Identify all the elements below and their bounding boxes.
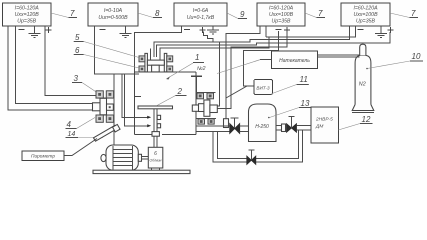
bus wire PS5 plus to plasmatron N2 wire2 (157, 32, 390, 57)
svg-text:N2: N2 (359, 82, 366, 88)
svg-text:Натекатель: Натекатель (279, 58, 310, 64)
plasmatron N1 (left) (93, 91, 114, 123)
svg-text:Uхх=100В: Uхх=100В (269, 12, 294, 18)
bus wire PS5 w2 to plasmatron N2 wire3 (160, 26, 355, 50)
svg-text:I=60-120А: I=60-120А (269, 6, 294, 12)
svg-text:12: 12 (362, 115, 371, 124)
T component on right wall (191, 76, 202, 92)
svg-text:6: 6 (154, 151, 157, 157)
PS4 terminal plus (284, 27, 290, 33)
plasmatron N2 (top) (139, 49, 173, 72)
reducer (282, 124, 286, 132)
pipe valve B to rotary pump (297, 126, 312, 130)
power supply box PS4 (257, 3, 305, 26)
callout 12 (338, 115, 372, 130)
svg-text:7: 7 (318, 9, 323, 18)
rotary pump 2NVR-5DM (311, 107, 338, 143)
PS4 terminal minus (276, 29, 282, 31)
svg-text:7: 7 (70, 9, 75, 18)
svg-text:1: 1 (195, 53, 199, 62)
wire to substrate heater arrow 2 (125, 74, 148, 126)
bypass line (213, 130, 303, 162)
PS2 ground (120, 26, 132, 38)
svg-text:№2: №2 (197, 66, 206, 72)
wire PS1 mid to plasmatron N1 neck (16, 26, 93, 104)
callout 9 (PS3) (227, 10, 247, 19)
svg-text:4: 4 (67, 120, 72, 129)
svg-text:I=60-120А: I=60-120А (353, 6, 378, 12)
svg-text:3: 3 (74, 74, 79, 83)
valve B (287, 117, 297, 133)
callout 5 (74, 33, 139, 58)
callout 7 (PS4) (305, 9, 325, 18)
PS5 ground (375, 26, 387, 38)
PS3 terminal minus (184, 29, 190, 31)
power supply box PS5 (341, 3, 390, 26)
VIT-3 wire to gauge assembly (226, 86, 254, 98)
svg-text:Uр=35В: Uр=35В (356, 19, 375, 25)
right wall gauge stub top (196, 93, 216, 99)
callout 3 (72, 74, 96, 92)
PS3 terminal plus (200, 27, 206, 33)
wire PS4 w2 drop to bus (265, 26, 267, 37)
gas cylinder N2 (352, 44, 374, 112)
chamber pump port pipe (196, 126, 230, 131)
svg-text:Н-250: Н-250 (255, 124, 269, 130)
pyrometer box (22, 139, 97, 161)
svg-text:2НВР-5: 2НВР-5 (315, 117, 333, 123)
thermo valve component on pipe (224, 119, 229, 128)
svg-text:I=0-10А: I=0-10А (104, 8, 123, 14)
power supply box PS1 (3, 3, 52, 26)
wire PS1 plus to plasmatron N1 top flange (45, 26, 97, 96)
svg-text:I=0-6А: I=0-6А (193, 8, 209, 14)
wire PS4 minus to VIT-3 left (244, 31, 279, 86)
PS3 ground (207, 26, 219, 34)
pyrometer sight tube (94, 124, 121, 141)
svg-text:14: 14 (68, 131, 76, 138)
right wall assembly (feedthrough) (192, 100, 217, 116)
svg-text:ДМ: ДМ (315, 124, 323, 130)
svg-text:Uр=35В: Uр=35В (17, 19, 36, 25)
svg-text:9: 9 (240, 10, 245, 19)
PS2 terminal minus (100, 29, 106, 31)
VIT-3 box (254, 79, 273, 94)
wire PS3 minus to chamber (grounded) (135, 26, 182, 72)
wire PS4 w1 to leak component (226, 26, 260, 119)
wire PS1 heater (8, 26, 95, 110)
substrate holder plate (138, 106, 173, 147)
svg-text:10: 10 (412, 52, 421, 61)
electric motor (101, 145, 148, 170)
callout 1 / N2 label (166, 53, 206, 80)
svg-text:Пирометр: Пирометр (31, 154, 55, 160)
svg-text:11: 11 (300, 75, 308, 84)
callout 11 (273, 75, 309, 93)
svg-text:2: 2 (177, 87, 183, 96)
wire PS2 minus to plasmatron N2 lower-left square (95, 26, 140, 74)
callout 8 (PS2) (138, 9, 162, 18)
bus wire PS5 w1 to plasmatron N2 wire1 (154, 26, 350, 57)
wire to substrate heater arrow 1 (122, 74, 147, 117)
callout 7 (PS5) (390, 9, 418, 18)
bypass valve C (247, 150, 256, 164)
svg-text:Uр=35В: Uр=35В (272, 19, 291, 25)
callout 13 (268, 99, 311, 118)
PS5 terminal plus (388, 27, 394, 33)
svg-text:13: 13 (301, 99, 310, 108)
svg-text:Uип=0-500В: Uип=0-500В (98, 15, 128, 21)
svg-text:8: 8 (155, 9, 160, 18)
power supply box PS2 (88, 3, 138, 26)
PS1 terminal plus (46, 27, 52, 33)
svg-text:6: 6 (75, 46, 80, 55)
vacuum chamber (135, 72, 197, 135)
svg-text:I=60-120А: I=60-120А (15, 6, 40, 12)
wire PS4 plus to right assembly second feed (217, 32, 287, 109)
svg-text:Об/мин: Об/мин (150, 159, 162, 163)
wire branch down to motor area (113, 74, 115, 145)
svg-text:ВИТ-3: ВИТ-3 (256, 86, 270, 91)
pipe H-250 to valve B (276, 126, 282, 130)
svg-text:Uхх=100В: Uхх=100В (353, 12, 378, 18)
PS1 terminal minus (19, 29, 25, 31)
right wall gauge stub bottom (196, 119, 216, 124)
pipe natekatel to cylinder (318, 55, 360, 57)
power supply box PS3 (174, 3, 227, 26)
callout 4 and callout 14 (sight tube) (66, 118, 104, 139)
svg-text:7: 7 (411, 9, 416, 18)
svg-text:5: 5 (75, 33, 80, 42)
PS5 terminal minus (358, 29, 364, 31)
callout 7 (PS1) (51, 9, 77, 18)
callout 6 (74, 46, 139, 68)
callout 2 (157, 87, 187, 106)
heater arrowheads (147, 116, 151, 119)
base plate (93, 170, 190, 173)
pipe valve A to H-250 (240, 126, 249, 131)
gear box 6 ob/min (148, 147, 163, 170)
callout 10 (366, 52, 423, 69)
svg-text:Uи=0-1,7кВ: Uи=0-1,7кВ (187, 15, 215, 21)
wire PS3 plus staircase to right assembly (203, 32, 219, 107)
diffusion pump H-250 (249, 104, 277, 142)
high vacuum valve A (230, 118, 240, 134)
leak valve box (natekatel) (217, 51, 318, 74)
PS1 ground (29, 26, 41, 38)
svg-text:Uхх=120В: Uхх=120В (15, 12, 40, 18)
